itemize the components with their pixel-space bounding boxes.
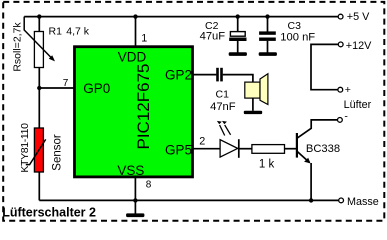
svg-text:1: 1 (141, 33, 147, 45)
svg-text:KTY81-110: KTY81-110 (19, 123, 31, 173)
svg-text:Lüfter: Lüfter (344, 99, 372, 111)
svg-text:GP2: GP2 (165, 68, 192, 83)
svg-text:PIC12F675: PIC12F675 (134, 64, 153, 150)
svg-text:47nF: 47nF (210, 101, 236, 113)
svg-text:Rsoll=2,7k: Rsoll=2,7k (12, 22, 24, 72)
svg-text:7: 7 (63, 78, 69, 89)
svg-text:VDD: VDD (118, 49, 147, 64)
svg-text:1 k: 1 k (259, 158, 275, 170)
svg-text:R1: R1 (49, 26, 63, 38)
svg-text:-: - (344, 111, 348, 123)
svg-text:Lüfterschalter 2: Lüfterschalter 2 (2, 205, 96, 219)
svg-text:GP5: GP5 (165, 142, 192, 157)
svg-text:2: 2 (199, 136, 205, 148)
svg-text:4,7 k: 4,7 k (66, 26, 90, 38)
svg-text:BC338: BC338 (306, 143, 340, 155)
svg-text:+5 V: +5 V (347, 11, 370, 23)
svg-text:+12V: +12V (346, 40, 372, 52)
svg-text:+: + (345, 84, 351, 96)
svg-text:Sensor: Sensor (52, 134, 64, 171)
svg-text:8: 8 (146, 180, 152, 191)
svg-text:Masse: Masse (347, 196, 379, 208)
svg-text:GP0: GP0 (83, 81, 110, 96)
svg-text:VSS: VSS (117, 163, 144, 178)
svg-text:C1: C1 (216, 88, 230, 100)
svg-text:47uF: 47uF (200, 30, 226, 42)
svg-text:C3: C3 (288, 20, 302, 32)
svg-text:100 nF: 100 nF (280, 31, 315, 43)
